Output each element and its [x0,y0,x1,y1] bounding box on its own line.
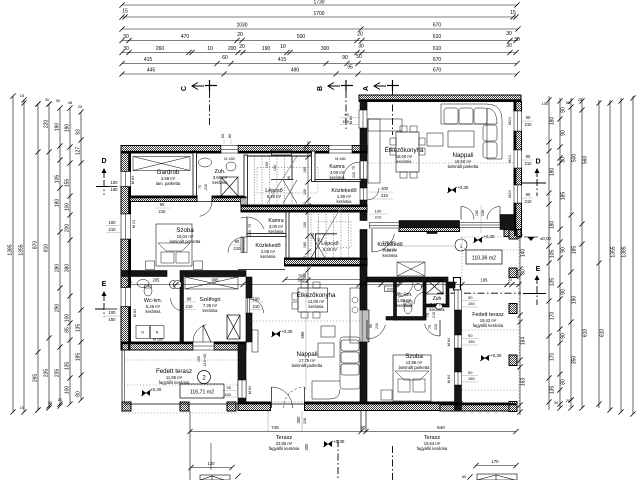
svg-text:laminált parketta: laminált parketta [292,363,323,368]
svg-text:M 84: M 84 [133,309,137,317]
wall right unit left [360,102,367,111]
terrace right dotted edge [518,237,520,412]
svg-text:670: 670 [433,23,442,29]
door szelfogo main [193,342,214,350]
line left terrace edge down [189,411,191,480]
svg-text:Étkezőkonyha: Étkezőkonyha [297,292,336,299]
svg-text:Szoba: Szoba [405,353,423,360]
svg-text:640: 640 [437,425,445,430]
svg-text:10: 10 [395,279,399,283]
door szelfogo-wc [171,298,184,311]
dim line top 470-500-610 [122,40,517,42]
svg-text:fagyálló kerámia: fagyálló kerámia [159,380,190,385]
wall bottom main [238,402,271,411]
wardrobe right unit hall [397,262,425,276]
svg-text:M 84: M 84 [248,386,252,394]
bottom step left dim 120 [191,467,232,469]
svg-text:M 84: M 84 [131,176,135,184]
svg-text:235: 235 [44,369,50,378]
wall szelfogo bottom [122,342,193,350]
right dim col terrace 140-164-163 [519,232,521,415]
svg-text:150: 150 [468,339,475,344]
svg-text:195: 195 [481,278,489,283]
svg-text:205: 205 [153,278,161,283]
svg-text:80: 80 [462,475,466,479]
svg-text:180: 180 [303,167,307,173]
washing machines [136,326,150,339]
svg-text:210: 210 [352,172,356,178]
svg-text:235: 235 [55,369,61,378]
svg-text:185: 185 [76,353,82,362]
svg-text:100: 100 [303,222,307,228]
svg-text:93: 93 [76,129,82,135]
svg-text:300: 300 [304,443,309,451]
inner face top wall right unit [359,99,522,101]
svg-text:30: 30 [506,31,512,37]
svg-text:810: 810 [44,244,50,253]
svg-text:610: 610 [433,34,442,40]
wall wc-km right unit [394,282,397,320]
window M84 left wall c [121,288,131,307]
svg-text:100: 100 [311,233,315,239]
section line B dash-dot [345,91,347,129]
svg-text:210: 210 [234,246,242,251]
svg-text:85: 85 [65,327,71,333]
svg-text:M 84: M 84 [349,116,353,124]
pillar right terrace 4 [509,355,517,366]
svg-text:129: 129 [376,279,382,283]
svg-text:120: 120 [208,461,216,466]
svg-text:150: 150 [468,301,475,306]
door wc right unit [398,282,413,297]
svg-text:100: 100 [65,203,71,212]
gardrob wardrobe [133,157,190,171]
svg-text:90: 90 [561,289,567,295]
svg-text:135: 135 [550,278,556,287]
door szelfogo-kitchen [246,298,250,313]
svg-text:150: 150 [342,119,349,124]
svg-text:15: 15 [510,10,516,16]
svg-text:100: 100 [111,180,119,185]
bed right unit [393,355,431,401]
section marker A [363,80,399,91]
wall kamra upper bottom [315,180,361,182]
svg-text:kerámia: kerámia [309,304,325,309]
dim line top 1700 [122,16,517,18]
svg-text:30: 30 [418,277,422,281]
svg-text:170: 170 [492,459,500,464]
svg-text:670: 670 [433,57,442,63]
svg-text:500: 500 [572,154,578,163]
svg-text:fagyálló kerámia: fagyálló kerámia [473,323,504,328]
svg-text:210: 210 [375,323,379,329]
coffee table left unit [318,343,334,357]
svg-text:90: 90 [561,130,567,136]
wall stairs left [244,155,248,199]
wall kamra upper left [312,151,316,182]
svg-text:100: 100 [273,165,277,171]
svg-text:kerámia: kerámia [213,180,229,185]
tv left unit [252,330,258,352]
svg-text:100: 100 [197,356,201,362]
door terrace big room [461,207,474,220]
window M24 right wall c [514,185,522,203]
svg-text:M 180: M 180 [335,157,346,161]
svg-text:610: 610 [433,46,442,52]
svg-text:90: 90 [526,154,531,159]
svg-text:50: 50 [356,54,362,60]
svg-text:870: 870 [33,241,39,250]
svg-text:Fedett terasz: Fedett terasz [156,368,192,375]
inner face left wall [128,153,130,172]
zuh sink left [199,158,212,167]
section line E right horizontal [437,292,521,294]
svg-text:210: 210 [159,209,167,214]
kitchen counter right unit [368,119,380,183]
inner face gardrob wall [129,196,197,198]
svg-text:80: 80 [561,379,567,385]
window M84 right unit left wall [359,110,367,128]
svg-text:20: 20 [237,32,243,38]
svg-text:+0,30: +0,30 [490,353,502,358]
svg-text:170: 170 [550,353,556,362]
wall top right unit [359,95,521,102]
svg-text:280: 280 [55,264,61,273]
toilet right unit [404,303,412,314]
svg-text:kerámia: kerámia [337,199,353,204]
svg-text:500: 500 [298,278,306,283]
level +0,30 bigroom [447,185,469,193]
wall right outer upper [514,102,522,112]
svg-text:150: 150 [111,187,119,192]
svg-text:15: 15 [20,405,25,410]
svg-text:20: 20 [239,44,245,50]
svg-text:210: 210 [204,184,208,190]
svg-text:180: 180 [303,242,307,248]
left dim col segments a [59,108,61,406]
svg-text:laminált parketta: laminált parketta [448,164,479,169]
right dim col story b [559,98,561,408]
chimney stairs left [241,197,248,205]
svg-text:210: 210 [375,215,382,220]
svg-text:130: 130 [436,279,442,283]
svg-text:150: 150 [468,376,475,381]
level +0,30 fedett right [480,353,502,361]
svg-text:560: 560 [583,156,589,165]
chimney left unit [227,315,240,339]
bottom step right house [477,474,517,480]
dotted line big room [368,162,514,164]
dotted line terrace right grid [462,249,519,251]
svg-text:190: 190 [55,123,61,132]
dim line top 1730 [122,4,517,6]
svg-text:210: 210 [525,122,533,127]
svg-text:90: 90 [160,202,165,207]
svg-text:75: 75 [428,325,432,329]
bottom step left house [200,475,230,480]
svg-text:+0,30: +0,30 [281,329,293,334]
stairs lower opening dashed [318,222,351,248]
svg-text:90: 90 [369,324,373,328]
level +0,30 fedett left [141,387,162,396]
svg-text:90: 90 [468,333,473,338]
coffee table right unit [427,133,443,146]
wall kamra lower left unit [247,234,286,237]
pillar left terrace 1 [122,402,131,411]
dim 110,36 box [466,250,502,264]
wall left outer [121,153,131,172]
svg-text:90: 90 [561,247,567,253]
svg-text:30: 30 [56,98,61,103]
door gardrob [200,202,212,217]
svg-text:180: 180 [550,117,556,126]
dim line top 260-200-190-300-610 [122,52,517,54]
svg-text:1385: 1385 [622,246,628,257]
svg-text:+0,30: +0,30 [483,234,495,239]
wall szelfogo-wc divider [180,277,184,342]
section marker D left [96,158,122,195]
svg-text:210: 210 [434,324,438,330]
wall left unit top [121,146,221,154]
svg-text:210: 210 [432,312,436,318]
left dim col 1355 [23,100,25,412]
right dim col 1385b [620,98,622,412]
wall stairs left lower [286,212,289,258]
svg-text:Nappali: Nappali [453,152,474,159]
terrace left edges [121,350,123,402]
svg-text:160: 160 [475,210,479,216]
inner face bottom wall [238,402,271,404]
svg-text:kerámia: kerámia [269,229,285,234]
svg-text:30: 30 [514,37,520,43]
svg-text:laminált parketta: laminált parketta [170,239,201,244]
svg-text:150: 150 [109,317,117,322]
chimney stairs top [271,150,291,156]
door gap big room bottom [369,223,399,229]
wall stairs mid [241,205,367,212]
left dim bottom ticks [35,407,40,412]
window M84 terrace wall b [455,335,462,348]
svg-text:90: 90 [345,112,350,117]
svg-text:80: 80 [76,391,82,397]
svg-text:M 24: M 24 [132,220,136,228]
svg-text:1385: 1385 [8,244,14,255]
svg-text:595: 595 [300,331,305,339]
svg-text:1355: 1355 [611,246,617,257]
svg-text:M24: M24 [508,190,512,197]
svg-text:100: 100 [381,186,389,191]
bottom dim 745-20-640 [190,431,516,433]
svg-text:1355: 1355 [19,244,25,255]
svg-text:+0,30: +0,30 [333,439,345,444]
door zuh right unit [414,292,426,304]
svg-text:116,71 m2: 116,71 m2 [190,390,214,396]
right dim col 1355b [609,100,611,410]
svg-text:1700: 1700 [313,11,324,17]
dotted line kitchen left [250,320,360,322]
svg-text:163: 163 [521,378,527,387]
dim 195 terrace top [462,282,507,284]
svg-text:185: 185 [561,192,567,201]
kitchen counter left unit [350,288,360,343]
svg-text:75: 75 [198,185,202,189]
dim line top 415-60-415-90-50-670 [122,63,517,65]
svg-text:105: 105 [550,250,556,259]
svg-text:100: 100 [375,209,382,214]
section line bottom C [337,440,339,480]
svg-text:90: 90 [235,239,240,244]
section marker E left [95,281,121,322]
svg-text:170: 170 [550,312,556,321]
svg-text:30: 30 [554,400,559,405]
unit circle 2 [198,371,211,384]
svg-text:M 84: M 84 [447,338,451,346]
svg-text:55: 55 [566,100,571,105]
stairs upper opening dashed [257,168,318,194]
svg-text:48: 48 [68,100,73,105]
svg-text:Szoba: Szoba [176,227,194,234]
interior dim 500 stairs [243,282,363,284]
svg-text:90: 90 [342,55,348,61]
svg-text:15: 15 [20,93,25,98]
dim line top 445-490-95-670 [122,73,517,75]
pillar left terrace 3 [227,402,236,411]
svg-text:kerámia: kerámia [203,308,219,313]
svg-text:1730: 1730 [313,0,324,6]
right dim col 560-610 [581,98,583,408]
bottom step right dim 170 [476,465,516,467]
svg-text:kerámia: kerámia [383,253,399,258]
svg-text:90: 90 [526,115,531,120]
door kamra lower [241,217,264,229]
left dim col segments c [80,112,82,400]
svg-text:75: 75 [248,224,252,228]
svg-text:30: 30 [123,46,129,52]
svg-text:135: 135 [76,324,82,333]
svg-text:kerámia: kerámia [397,303,413,308]
right dim col 610 [598,100,600,408]
svg-text:135: 135 [550,386,556,395]
right dim col 500-185-190-350 [570,98,572,408]
window M84 left wall a [121,172,131,187]
svg-text:30: 30 [126,279,130,283]
svg-text:110,36 m2: 110,36 m2 [472,256,496,262]
svg-text:100: 100 [303,189,307,195]
svg-text:190: 190 [65,124,71,133]
svg-text:190: 190 [572,296,578,305]
svg-text:610: 610 [583,329,589,338]
wall zuh right unit [446,282,449,307]
svg-text:A: A [363,86,370,91]
section marker C [181,80,217,91]
svg-text:20: 20 [361,425,366,430]
svg-text:1030: 1030 [236,23,247,29]
interior dim 595 [305,290,307,390]
svg-text:60: 60 [227,133,232,138]
bed left unit [156,224,192,266]
stairs upper left unit [254,156,256,204]
right dim col story a [548,96,550,410]
svg-text:470: 470 [181,34,190,40]
svg-text:210: 210 [387,286,394,291]
central dim line stairs [307,141,309,298]
pillar right terrace 5 [509,402,517,412]
wardrobe under szoba [185,277,238,289]
line kozlekedo lower bottom [238,269,285,271]
door szoba right unit [367,325,385,339]
dining table right unit [396,132,419,172]
svg-text:M 180: M 180 [153,338,164,342]
svg-text:fagyálló kerámia: fagyálló kerámia [417,446,448,451]
svg-text:fagyálló kerámia: fagyálló kerámia [269,446,300,451]
left dim col 870-265 [37,104,39,410]
sofa right unit [441,104,502,159]
dim 116,71 box [180,384,224,398]
level +0,30 terrace door [473,234,495,243]
window M84 nappali left unit [238,380,246,398]
svg-text:M 84: M 84 [447,375,451,383]
wall stairs bottom [285,258,368,266]
svg-text:238: 238 [303,418,307,424]
svg-text:210: 210 [186,304,194,309]
svg-text:90: 90 [227,385,232,390]
svg-text:380: 380 [65,264,71,273]
svg-text:610: 610 [600,329,606,338]
window M24 right wall b [514,150,522,168]
pillar left terrace 2 [180,402,189,411]
svg-text:C: C [181,86,188,91]
svg-text:180: 180 [550,221,556,230]
left dim col 220-810-235 [48,104,50,408]
svg-text:+0,30: +0,30 [457,185,469,190]
svg-text:415: 415 [278,57,287,63]
svg-text:90: 90 [561,333,567,339]
svg-text:5,40 m²: 5,40 m² [267,194,282,199]
svg-text:90: 90 [526,192,531,197]
svg-text:745: 745 [271,425,279,430]
svg-text:60: 60 [222,55,228,61]
svg-text:30: 30 [358,44,364,50]
svg-text:D: D [101,158,106,165]
svg-text:300: 300 [321,46,330,52]
section line C dash-dot [209,91,211,126]
line kitchen top 500dim [285,279,363,281]
svg-text:210: 210 [248,230,252,236]
wall wc row right unit [367,277,448,282]
wall gardrob-zuh divider [193,151,197,196]
door kamra-upper [343,162,360,179]
svg-text:Nappali: Nappali [297,351,318,358]
door nappali terrace [272,387,293,408]
window M84 terrace wall c [455,372,462,385]
svg-text:236: 236 [481,210,485,216]
shower left unit [221,177,238,196]
svg-text:150: 150 [224,392,231,397]
dotted line terrace left grid [124,359,238,361]
svg-text:445: 445 [147,68,156,74]
svg-text:B: B [317,86,324,91]
left dim top ticks [35,101,40,106]
svg-text:190: 190 [262,46,271,52]
svg-text:100: 100 [253,297,261,302]
left dim col 1385 [12,96,14,412]
svg-text:265: 265 [33,374,39,383]
party wall extension line [360,411,362,432]
level +0,30 kitchen left [271,329,293,337]
svg-text:105: 105 [55,175,61,184]
svg-text:20: 20 [508,278,512,282]
svg-text:210: 210 [109,227,117,232]
